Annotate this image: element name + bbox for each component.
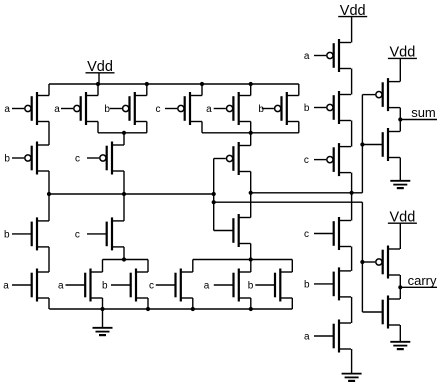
wire P4 source down to node n3 — [201, 122, 203, 133]
wire N8 to ground rail — [250, 298, 252, 309]
svg-text:a: a — [58, 280, 64, 291]
wire P3 source down to node n1 — [146, 122, 148, 133]
carry_bar gate riser — [213, 159, 215, 231]
ground — [93, 328, 113, 335]
wire P1 drain to P7 — [48, 122, 50, 146]
nmos N4 gate a — [3, 269, 49, 302]
wire n4 to N9 — [291, 260, 293, 273]
svg-text:c: c — [304, 229, 309, 240]
pmos P1 gate a — [4, 92, 49, 125]
Vdd symbol — [388, 45, 417, 82]
Vdd symbol — [338, 3, 367, 43]
svg-text:a: a — [304, 51, 310, 62]
junction n2/N2 — [122, 257, 126, 261]
junction n3/P9 — [249, 131, 253, 135]
carry_bar extension wire — [214, 201, 363, 203]
svg-text:b: b — [104, 104, 110, 115]
wire n2 to N6 — [147, 260, 149, 273]
nmos NS sum inverter — [362, 128, 400, 161]
node n1 wire — [98, 132, 147, 134]
wire NCY to ground — [399, 325, 401, 342]
nmos N6 gate b — [102, 269, 148, 302]
nmos NC gate c — [304, 217, 351, 250]
wire P2 source down to node n1 — [97, 122, 99, 133]
wire bus to N2 — [123, 194, 125, 221]
nmos N2 gate c — [75, 217, 124, 250]
svg-text:c: c — [304, 155, 309, 166]
svg-text:c: c — [75, 229, 80, 240]
svg-text:b: b — [304, 279, 310, 290]
wire bus to N1 — [48, 194, 50, 221]
junction rail/P3 — [145, 82, 149, 86]
wire PC to sum_bar — [351, 173, 353, 193]
Vdd symbol — [388, 209, 417, 249]
nmos NCY carry inverter — [383, 296, 400, 329]
wire NC to NB — [351, 247, 353, 271]
wire PCY to carry node — [399, 275, 401, 287]
svg-text:a: a — [206, 104, 212, 115]
pmos P9 — [214, 142, 251, 175]
junction rail/N7 — [191, 307, 195, 311]
ground — [342, 374, 362, 381]
pmos P7 gate b — [4, 142, 49, 175]
svg-text:sum: sum — [411, 105, 436, 120]
sum_bar wire — [251, 192, 363, 194]
pmos P6 gate b — [258, 92, 298, 125]
svg-text:a: a — [304, 331, 310, 342]
carry output wire — [400, 286, 437, 288]
wire P8 to carry_bar bus — [123, 171, 125, 194]
wire n3 to P9 — [250, 133, 252, 146]
pmos PS sum inverter — [362, 78, 400, 111]
wire P5 source down to node n3 — [250, 122, 252, 133]
wire NS to sum node — [399, 120, 401, 132]
svg-text:c: c — [75, 153, 80, 164]
wire NCY to carry node — [399, 287, 401, 299]
pmos PB gate b — [304, 91, 351, 124]
junction rail/N5/gnd — [100, 307, 104, 311]
wire N3 to node n4 — [250, 244, 252, 260]
pmos P2 gate a — [54, 92, 98, 125]
wire sum_bar down to NC — [351, 193, 353, 221]
wire N1 to N4 — [48, 247, 50, 272]
nmos N9 gate b — [248, 269, 292, 302]
ground — [390, 181, 410, 188]
svg-text:a: a — [4, 104, 10, 115]
wire N7 to ground rail — [192, 298, 194, 309]
junction sum_bar/chains — [350, 191, 354, 195]
wire sum_bar to N3 — [250, 193, 252, 218]
pmos P8 gate c — [75, 142, 124, 175]
wire NS to ground — [399, 158, 401, 181]
junction bus/P7-N1 — [47, 192, 51, 196]
svg-text:a: a — [3, 280, 9, 291]
pmos P5 gate a — [206, 92, 251, 125]
junction n4/N3 — [249, 257, 253, 261]
ground — [390, 342, 410, 349]
wire PS to sum node — [399, 108, 401, 120]
wire riser to N3 gate — [214, 230, 234, 232]
junction rail/N6 — [146, 307, 150, 311]
wire n2 to N5 — [102, 260, 104, 273]
pmos PCY carry inverter — [362, 246, 400, 279]
wire P6 source down to node n3 — [298, 122, 300, 133]
junction bus/P8-N2 — [122, 192, 126, 196]
carry_bar riser to carry inverter — [361, 202, 363, 312]
junction rail/P2 — [96, 82, 100, 86]
junction riser/NS gate — [360, 142, 364, 146]
nmos NB gate b — [304, 267, 351, 300]
wire N4 to ground rail — [48, 298, 50, 309]
wire P7 to carry_bar bus — [48, 171, 50, 194]
wire n4 to N8 — [250, 260, 252, 273]
wire PB to PC — [351, 121, 353, 147]
svg-text:b: b — [258, 104, 264, 115]
node n2 wire — [103, 259, 149, 261]
svg-text:b: b — [4, 153, 10, 164]
wire N9 to ground rail — [291, 298, 293, 309]
svg-text:c: c — [149, 280, 154, 291]
sum output wire — [400, 119, 437, 121]
svg-text:c: c — [156, 104, 161, 115]
wire NA to ground — [351, 349, 353, 374]
sum inverter input riser — [361, 95, 363, 193]
junction rail/P5 — [249, 82, 253, 86]
Vdd symbol — [86, 59, 115, 84]
junction bus/gate riser — [212, 192, 216, 196]
pmos PC gate c — [304, 143, 351, 176]
svg-text:a: a — [54, 104, 60, 115]
nmos NA gate a — [304, 320, 351, 353]
svg-text:a: a — [204, 280, 210, 291]
junction n1/P8 — [122, 131, 126, 135]
pmos P4 gate c — [156, 92, 203, 125]
pmos P3 gate b — [104, 92, 146, 125]
wire N2 to node n2 — [123, 247, 125, 260]
Vdd rail wire — [49, 83, 299, 85]
wire N5 to ground rail — [102, 298, 104, 309]
nmos N3 — [233, 214, 250, 247]
ground rail wire — [49, 308, 292, 310]
wire riser to NCY gate — [362, 311, 382, 313]
svg-text:b: b — [102, 280, 108, 291]
pmos PA gate a — [304, 39, 351, 72]
wire P9 to sum_bar — [250, 172, 252, 193]
junction rail/N8 — [249, 307, 253, 311]
junction carry node — [398, 285, 402, 289]
svg-text:b: b — [304, 103, 310, 114]
ground stub wire — [102, 309, 104, 328]
carry_bar bus wire — [49, 193, 214, 195]
wire PA to PB — [351, 69, 353, 95]
junction rail/P4 — [200, 82, 204, 86]
wire N6 to ground rail — [147, 298, 149, 309]
svg-text:b: b — [248, 280, 254, 291]
wire rail risers to row1 transistors — [48, 84, 50, 96]
junction sum_bar/P9-N3 — [249, 191, 253, 195]
junction riser/PCY gate — [360, 260, 364, 264]
node n4 wire — [193, 259, 292, 261]
svg-text:carry: carry — [408, 273, 437, 288]
nmos N8 gate a — [204, 269, 251, 302]
wire n1 to P8 — [123, 133, 125, 145]
wire n4 to N7 — [192, 260, 194, 273]
junction riser/line2 — [212, 200, 216, 204]
junction sum node — [398, 117, 402, 121]
nmos N7 gate c — [149, 269, 193, 302]
nmos N5 gate a — [58, 269, 103, 302]
nmos N1 gate b — [4, 217, 49, 250]
svg-text:b: b — [4, 229, 10, 240]
node n3 wire — [202, 132, 299, 134]
wire NB to NA — [351, 297, 353, 323]
